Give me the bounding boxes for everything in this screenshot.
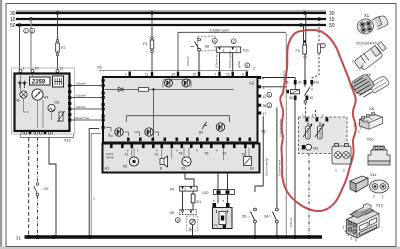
svg-text:4: 4 <box>268 104 270 108</box>
svg-text:X10: X10 <box>367 137 375 142</box>
svg-text:0,5mm²: 0,5mm² <box>76 81 86 85</box>
svg-text:31: 31 <box>16 236 21 241</box>
svg-text:F1: F1 <box>143 42 147 46</box>
svg-text:4: 4 <box>52 132 54 136</box>
svg-text:17: 17 <box>263 112 267 116</box>
svg-text:F3: F3 <box>296 49 300 53</box>
svg-text:1: 1 <box>359 68 361 72</box>
svg-text:0,8mm²: 0,8mm² <box>289 217 293 227</box>
svg-text:X5: X5 <box>205 152 209 156</box>
svg-text:R1: R1 <box>197 200 202 204</box>
svg-text:0,5mm² ws/rt: 0,5mm² ws/rt <box>278 160 282 176</box>
svg-text:24V/9: 24V/9 <box>106 156 114 160</box>
svg-text:X1: X1 <box>125 153 129 157</box>
svg-text:11: 11 <box>145 73 149 77</box>
svg-text:S5 –: S5 – <box>242 215 249 219</box>
svg-text:8: 8 <box>31 29 33 33</box>
svg-text:B: B <box>160 167 162 171</box>
svg-text:X4: X4 <box>223 152 227 156</box>
svg-text:X3: X3 <box>242 153 246 157</box>
svg-text:0,5mm² ws/sw: 0,5mm² ws/sw <box>265 157 269 176</box>
svg-text:Y1: Y1 <box>214 224 218 228</box>
svg-text:B1: B1 <box>182 167 186 171</box>
svg-text:X11: X11 <box>370 172 378 177</box>
svg-text:X8: X8 <box>369 106 375 111</box>
svg-text:2: 2 <box>373 195 375 199</box>
svg-text:6: 6 <box>242 73 244 77</box>
svg-text:4: 4 <box>214 39 216 43</box>
svg-text:0,5mm²: 0,5mm² <box>76 105 86 109</box>
svg-text:16: 16 <box>193 73 197 77</box>
svg-text:0,5mm²*ws: 0,5mm²*ws <box>74 116 90 120</box>
svg-text:2: 2 <box>253 67 255 71</box>
svg-text:87a: 87a <box>314 81 320 85</box>
svg-text:4: 4 <box>345 230 347 234</box>
svg-text:X2: X2 <box>155 153 159 157</box>
svg-text:H4: H4 <box>44 96 49 100</box>
svg-text:X8: X8 <box>170 211 174 215</box>
svg-text:H3: H3 <box>55 101 60 105</box>
svg-text:X1: X1 <box>364 13 370 18</box>
svg-text:X10: X10 <box>202 191 208 195</box>
svg-text:2: 2 <box>343 169 345 173</box>
svg-text:5: 5 <box>246 64 248 68</box>
svg-text:M1: M1 <box>123 165 128 169</box>
svg-text:12: 12 <box>263 95 267 99</box>
svg-text:S4 =: S4 = <box>264 215 272 219</box>
svg-text:X9: X9 <box>170 188 174 192</box>
svg-text:50: 50 <box>329 23 335 29</box>
svg-text:38: 38 <box>263 104 267 108</box>
svg-text:0,5mm² sw: 0,5mm² sw <box>215 53 219 68</box>
svg-text:6: 6 <box>351 237 353 241</box>
svg-text:15: 15 <box>226 73 230 77</box>
svg-text:50: 50 <box>10 23 16 29</box>
svg-text:9: 9 <box>268 93 270 97</box>
svg-text:gn/ws: gn/ws <box>237 60 241 68</box>
svg-text:2359: 2359 <box>31 80 46 86</box>
svg-text:X11: X11 <box>243 49 249 53</box>
svg-text:85: 85 <box>289 96 293 100</box>
svg-text:0,5mm² gn/ws: 0,5mm² gn/ws <box>228 50 232 68</box>
svg-text:2: 2 <box>352 60 354 64</box>
svg-text:2: 2 <box>233 40 235 44</box>
svg-text:S8: S8 <box>205 45 210 49</box>
svg-text:2: 2 <box>184 187 186 191</box>
svg-text:30: 30 <box>310 96 314 100</box>
svg-text:F2: F2 <box>61 46 65 50</box>
svg-text:X12: X12 <box>376 203 384 208</box>
svg-text:1: 1 <box>25 29 27 33</box>
svg-text:10: 10 <box>35 67 39 71</box>
svg-text:1: 1 <box>125 73 127 77</box>
svg-text:1: 1 <box>335 169 337 173</box>
svg-text:11: 11 <box>60 67 64 71</box>
svg-text:7: 7 <box>39 132 41 136</box>
svg-text:X12: X12 <box>64 139 71 143</box>
svg-text:8: 8 <box>177 219 179 223</box>
svg-text:B3: B3 <box>250 167 254 171</box>
svg-text:A1: A1 <box>105 166 111 171</box>
svg-text:–57: –57 <box>43 187 49 191</box>
svg-text:2: 2 <box>236 49 238 53</box>
svg-text:1: 1 <box>193 187 195 191</box>
svg-text:M3: M3 <box>313 147 318 151</box>
svg-text:X6: X6 <box>97 66 102 70</box>
svg-text:7: 7 <box>215 73 217 77</box>
svg-text:B2: B2 <box>199 131 203 135</box>
svg-text:2: 2 <box>354 124 356 128</box>
svg-text:5: 5 <box>348 233 350 237</box>
svg-text:0,5mm²: 0,5mm² <box>186 56 190 66</box>
svg-text:87: 87 <box>298 81 302 85</box>
svg-text:0,5mm²: 0,5mm² <box>76 93 86 97</box>
svg-text:1: 1 <box>23 67 25 71</box>
svg-text:X2/X3/X4/X5: X2/X3/X4/X5 <box>356 42 377 46</box>
svg-text:1: 1 <box>382 195 384 199</box>
svg-text:1: 1 <box>358 130 360 134</box>
svg-text:0: 0 <box>355 239 357 243</box>
svg-text:A2: A2 <box>249 81 255 86</box>
svg-text:1: 1 <box>223 49 225 53</box>
svg-text:X5: X5 <box>179 152 183 156</box>
svg-text:7: 7 <box>322 44 324 48</box>
svg-text:0,5mm² swrt: 0,5mm² swrt <box>210 29 229 33</box>
svg-text:5: 5 <box>33 132 35 136</box>
svg-text:14: 14 <box>172 73 176 77</box>
svg-text:H6: H6 <box>15 99 20 103</box>
